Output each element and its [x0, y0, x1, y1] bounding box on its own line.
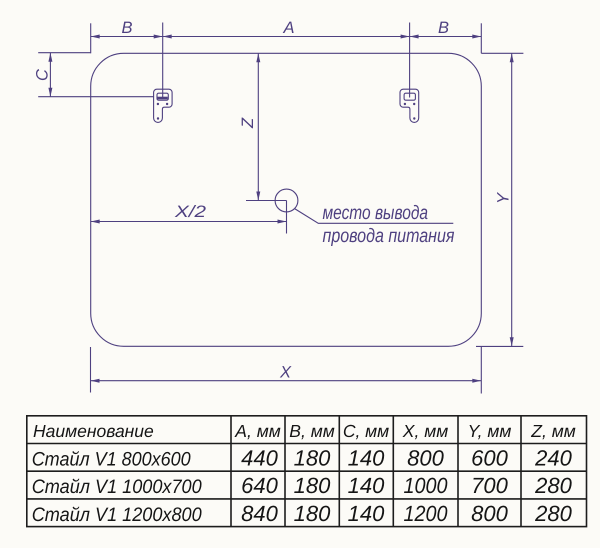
label Y [495, 192, 513, 204]
label A [283, 19, 295, 37]
arrow X/2 right [278, 220, 287, 224]
svg-text:Y, мм: Y, мм [468, 421, 512, 441]
svg-text:Z: Z [239, 117, 257, 129]
arrow C bottom [48, 88, 52, 97]
dimension line C [49, 53, 51, 97]
svg-text:C, мм: C, мм [343, 421, 389, 441]
bracket left slot [157, 93, 168, 100]
svg-text:640: 640 [241, 473, 278, 498]
dimension line Z [257, 53, 259, 200]
extension line left bracket vertical [162, 23, 164, 98]
svg-text:C: C [34, 69, 52, 81]
svg-text:провода питания: провода питания [323, 225, 455, 247]
svg-text:Y: Y [495, 192, 513, 204]
X extension right [480, 346, 482, 393]
svg-text:240: 240 [534, 445, 572, 470]
arrow X left [91, 379, 100, 383]
svg-text:X/2: X/2 [174, 203, 206, 221]
svg-text:Стайл V1 1000x700: Стайл V1 1000x700 [32, 476, 202, 498]
bracket right slot [404, 93, 415, 100]
label X/2 [174, 203, 206, 221]
svg-text:280: 280 [534, 501, 572, 526]
dimension line X [91, 380, 482, 382]
circle center vertical line [286, 201, 288, 234]
bracket left outer [154, 89, 173, 122]
label B left [122, 19, 133, 37]
svg-text:440: 440 [241, 445, 278, 470]
svg-text:A: A [283, 19, 295, 37]
arrow Y bottom [510, 337, 514, 346]
svg-text:Стайл V1 800x600: Стайл V1 800x600 [32, 448, 191, 470]
extension line top-right vertical [480, 23, 482, 53]
arrow X/2 left [91, 220, 100, 224]
arrow Z top [256, 53, 260, 62]
extension line right bracket vertical [409, 23, 411, 98]
svg-text:180: 180 [294, 501, 331, 526]
svg-text:180: 180 [294, 473, 331, 498]
svg-text:280: 280 [534, 473, 572, 498]
svg-text:800: 800 [471, 501, 508, 526]
svg-text:Наименование: Наименование [33, 421, 154, 441]
bracket right outer [400, 89, 419, 122]
arrow B left [91, 35, 100, 39]
svg-text:B: B [438, 19, 449, 37]
Y extension top [481, 52, 523, 54]
arrow C top [48, 53, 52, 62]
circle center horizontal line [246, 200, 287, 202]
svg-text:180: 180 [294, 445, 331, 470]
extension line top-left vertical [90, 23, 92, 53]
svg-text:840: 840 [241, 501, 278, 526]
table grid [27, 416, 587, 527]
table header row [33, 421, 576, 441]
arrows at left bracket line [154, 35, 172, 39]
label C [34, 69, 52, 81]
table row 2 [32, 473, 573, 498]
Y extension bottom [476, 345, 523, 347]
arrow X right [472, 379, 481, 383]
bracket right holes [404, 103, 416, 120]
label Z [239, 117, 257, 129]
table row 1 [32, 445, 573, 470]
dimension line X/2 [91, 221, 287, 223]
bracket left holes [157, 103, 169, 120]
label B right [438, 19, 449, 37]
svg-text:1200: 1200 [404, 501, 449, 526]
dimension line A B B [91, 36, 482, 38]
dimension line Y [511, 53, 513, 346]
mirror outline [91, 53, 482, 346]
arrow Z bottom [256, 192, 260, 201]
svg-text:Z, мм: Z, мм [530, 421, 575, 441]
callout text line 2 [323, 225, 455, 247]
cable outlet circle [275, 189, 298, 212]
C extension bottom to bracket [38, 97, 168, 98]
svg-text:600: 600 [471, 445, 508, 470]
svg-text:140: 140 [348, 501, 385, 526]
arrows at right bracket line [401, 35, 419, 39]
X extension left [90, 347, 92, 393]
arrow B right [472, 35, 481, 39]
svg-text:140: 140 [348, 445, 385, 470]
arrow Y top [510, 53, 514, 62]
callout text line 1 [323, 202, 429, 224]
leader line [295, 209, 454, 224]
table row 3 [32, 501, 573, 526]
svg-text:800: 800 [407, 445, 444, 470]
svg-text:B: B [122, 19, 133, 37]
svg-text:1000: 1000 [404, 473, 449, 498]
svg-text:A, мм: A, мм [234, 421, 280, 441]
C extension top [38, 52, 90, 54]
svg-text:X, мм: X, мм [402, 421, 448, 441]
label X [279, 364, 292, 382]
svg-text:X: X [279, 364, 292, 382]
svg-text:B, мм: B, мм [289, 421, 334, 441]
svg-text:Стайл V1 1200x800: Стайл V1 1200x800 [32, 504, 202, 526]
svg-text:140: 140 [348, 473, 385, 498]
svg-text:700: 700 [471, 473, 508, 498]
svg-text:место вывода: место вывода [323, 202, 429, 224]
